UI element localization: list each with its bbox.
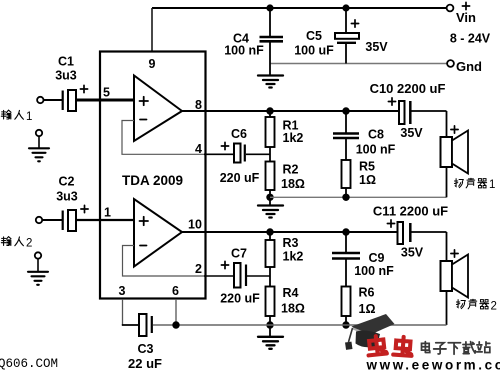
node R5/rail1	[342, 194, 349, 201]
node output2/C9	[342, 228, 349, 235]
svg-text:10: 10	[188, 218, 202, 232]
svg-text:C10 2200 uF: C10 2200 uF	[370, 81, 446, 96]
wire speaker 1 to rail1	[446, 167, 448, 197]
svg-text:1: 1	[26, 111, 32, 123]
wire pin 9 to V+ rail	[151, 8, 153, 52]
svg-text:2: 2	[26, 238, 32, 250]
capacitor C2	[56, 175, 88, 232]
node R6/rail2	[342, 321, 349, 328]
op-amp U1B	[134, 199, 182, 267]
svg-text:35V: 35V	[401, 246, 424, 260]
wire R3-R4 junction	[269, 267, 271, 287]
ground (input 2)	[28, 272, 48, 285]
wire pin 2 to C7	[204, 275, 234, 277]
svg-text:Gnd: Gnd	[456, 59, 482, 74]
op-amp U1A	[134, 76, 182, 142]
wire input1 to C1	[44, 99, 63, 101]
svg-text:1Ω: 1Ω	[359, 302, 376, 316]
node junction C4/V+	[266, 4, 273, 11]
terminal Vin	[447, 5, 454, 12]
IC U1 TDA2009 box	[100, 52, 206, 299]
svg-text:2: 2	[195, 262, 202, 276]
svg-text:TDA 2009: TDA 2009	[122, 173, 183, 188]
svg-text:100 nF: 100 nF	[356, 143, 396, 157]
wire pin3 to C3	[122, 324, 139, 326]
wire pin 3 down	[122, 299, 124, 325]
resistor R5	[342, 160, 376, 198]
svg-text:Q606.COM: Q606.COM	[0, 357, 58, 371]
node output1/C8	[342, 107, 349, 114]
svg-text:18Ω: 18Ω	[281, 177, 305, 191]
wire R1-R2 junction	[269, 147, 271, 162]
wire input2 to C2	[42, 219, 62, 221]
svg-text:R4: R4	[283, 286, 299, 300]
svg-text:9: 9	[149, 57, 156, 71]
svg-text:3: 3	[119, 284, 126, 298]
label speaker 1 (Chinese)	[454, 178, 486, 188]
capacitor C3	[128, 314, 162, 371]
svg-text:1Ω: 1Ω	[359, 173, 376, 187]
wire speaker 2 to rail2	[446, 291, 448, 325]
label input2 (Chinese)	[1, 237, 23, 246]
speaker LS2	[441, 250, 469, 298]
watermark chongchong red	[367, 335, 413, 356]
capacitor C7	[220, 247, 270, 306]
capacitor C1	[55, 55, 87, 112]
svg-text:8 - 24V: 8 - 24V	[450, 32, 491, 46]
terminal input ground 1	[36, 130, 42, 136]
svg-text:8: 8	[195, 98, 202, 112]
wire pin 10 output	[181, 231, 398, 233]
svg-text:C9: C9	[369, 251, 385, 265]
node R4/rail2	[266, 321, 273, 328]
wire V+ top rail	[152, 7, 447, 9]
wire rail channel 1	[270, 196, 447, 198]
capacitor C4	[224, 8, 283, 75]
svg-text:2: 2	[491, 301, 497, 313]
svg-text:R6: R6	[359, 286, 375, 300]
svg-text:1k2: 1k2	[283, 250, 304, 264]
resistor R4	[266, 286, 305, 316]
ground (channel 1)	[258, 206, 283, 218]
svg-text:C6: C6	[231, 127, 247, 141]
svg-text:22 uF: 22 uF	[128, 356, 162, 371]
terminal input 1	[37, 97, 43, 103]
svg-text:1: 1	[489, 179, 495, 191]
svg-text:www.eeworm.com: www.eeworm.com	[366, 358, 500, 371]
svg-text:R2: R2	[283, 163, 299, 177]
node pin6/rail2	[172, 321, 179, 328]
wire feedback pin4 to inverting input U1A	[122, 121, 205, 155]
capacitor C11	[373, 204, 448, 260]
svg-text:5: 5	[103, 86, 110, 100]
svg-text:220 uF: 220 uF	[220, 292, 260, 306]
node R2/rail1	[266, 194, 273, 201]
wire pin 5 input	[76, 99, 134, 102]
label speaker 2 (Chinese)	[456, 299, 488, 309]
svg-text:18Ω: 18Ω	[281, 302, 305, 316]
svg-text:C1: C1	[58, 55, 74, 69]
svg-text:C11 2200 uF: C11 2200 uF	[373, 204, 448, 219]
svg-text:Vin: Vin	[456, 10, 476, 25]
ground (channel 2)	[258, 337, 283, 349]
node output1/R1	[266, 107, 273, 114]
node junction C5/V+	[342, 4, 349, 11]
wire pin 4 to C6	[204, 153, 234, 155]
capacitor C8	[333, 111, 396, 160]
wire pin 6 down	[175, 299, 177, 325]
resistor R6	[342, 286, 376, 326]
watermark site name (Chinese)	[422, 342, 490, 355]
ground (C4)	[258, 76, 283, 88]
terminal Gnd	[447, 60, 454, 67]
ground (input 1)	[29, 148, 49, 161]
wire feedback pin2 to inverting input U1B	[123, 246, 206, 277]
svg-text:R3: R3	[283, 236, 299, 250]
svg-text:35V: 35V	[400, 126, 423, 140]
svg-text:C5: C5	[306, 29, 322, 43]
svg-text:100 nF: 100 nF	[224, 43, 264, 57]
wire R2 to ground	[269, 190, 271, 205]
capacitor C10	[370, 81, 447, 140]
svg-text:100 nF: 100 nF	[354, 264, 394, 278]
capacitor C6	[220, 127, 270, 185]
wire C10 to speaker 1	[446, 111, 448, 137]
svg-text:3u3: 3u3	[56, 190, 78, 204]
svg-text:C3: C3	[138, 342, 154, 356]
svg-text:100 uF: 100 uF	[294, 43, 334, 57]
label input1 (Chinese)	[1, 110, 23, 119]
node output2/R3	[266, 228, 273, 235]
resistor R2	[266, 162, 305, 192]
svg-text:1: 1	[104, 206, 111, 220]
watermark graduation cap	[345, 314, 394, 350]
svg-text:C8: C8	[368, 128, 384, 142]
capacitor C5	[294, 8, 388, 64]
wire rail channel 2	[153, 324, 447, 326]
svg-text:1k2: 1k2	[283, 131, 304, 145]
svg-text:C7: C7	[231, 247, 247, 261]
wire pin 1 input	[76, 219, 134, 221]
wire R4 to ground	[269, 316, 271, 336]
resistor R1	[266, 111, 304, 147]
svg-text:C2: C2	[59, 175, 75, 189]
wire C11 to speaker 2	[446, 232, 448, 261]
wire Gnd rail	[270, 63, 447, 65]
wire pin 8 output	[181, 110, 400, 112]
svg-text:35V: 35V	[365, 40, 388, 54]
resistor R3	[266, 232, 304, 267]
speaker LS1	[441, 126, 469, 174]
svg-text:3u3: 3u3	[55, 69, 77, 83]
terminal input ground 2	[35, 252, 41, 258]
terminal input 2	[36, 217, 42, 223]
svg-text:220 uF: 220 uF	[220, 171, 260, 185]
capacitor C9	[332, 232, 394, 287]
svg-text:R5: R5	[359, 160, 375, 174]
svg-text:6: 6	[172, 284, 179, 298]
